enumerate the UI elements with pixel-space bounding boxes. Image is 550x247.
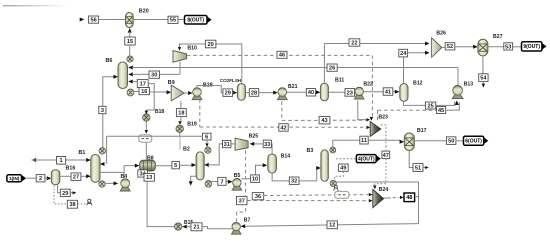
stream box 38 [67,200,77,208]
svg-text:B25: B25 [249,133,259,139]
drum B16 [51,170,60,185]
feed stream box 1(IN) [7,175,26,182]
wire B22 to 41 [363,91,383,93]
wire B3 condenser up to 11 [333,140,360,147]
stream box 22 [349,39,360,47]
stream box 41 [383,88,393,96]
stream box 21 [191,223,202,231]
arrow hang down [189,181,193,186]
svg-text:B21: B21 [288,84,298,90]
svg-text:54: 54 [480,76,487,82]
wire 29 stub [70,192,73,194]
arrow into B27 [473,45,478,49]
pump B22 [354,87,364,99]
stream box 5 [172,161,180,169]
work stream B28 dashed down [199,99,201,127]
svg-text:6: 6 [205,135,208,141]
condenser of B6 [127,56,133,62]
work stream upper dashed to B24 [264,194,369,197]
svg-text:B18: B18 [155,109,164,115]
wire B22 base elbow to B23 [358,100,367,119]
arrow into CO2FLSH [233,91,238,95]
wire stream 1 [32,159,91,161]
heat stream dotted from 38 [78,203,86,205]
svg-text:36: 36 [255,194,261,200]
svg-text:10: 10 [252,177,258,183]
wire 1(IN) to box 2 [26,177,36,179]
wire 56 to B20 [99,19,126,21]
svg-text:15: 15 [127,39,133,45]
wire B12 top to 24 [403,57,405,84]
pump B13 [452,86,463,99]
wire 41 to B12 [393,91,396,93]
stream box 51 [413,164,423,172]
wire B1 reboiler to pump B4 [105,182,114,184]
svg-text:29: 29 [62,191,68,197]
stream box 34 [138,170,148,178]
svg-text:16: 16 [141,89,147,95]
column B6 [118,62,128,89]
stream box 29 [223,89,233,97]
pump B21 [277,88,287,100]
wire 24 to B26 [408,52,426,54]
svg-text:48: 48 [406,195,412,201]
svg-text:23: 23 [347,90,353,96]
svg-text:28: 28 [251,90,257,96]
stream box 43 [319,117,330,125]
arrow into hidden block top [145,130,148,134]
hidden work block (dashed pill) [335,191,349,198]
wire B20 to 55 [133,19,168,21]
wire B2 reboiler to 7 [212,181,218,183]
work stream 46 from B10 dashed [187,54,373,56]
svg-text:B22: B22 [363,82,373,88]
arrow up into B20 bottom [128,28,132,33]
work stream B24 outlet [384,197,391,199]
svg-text:3: 3 [101,108,104,114]
svg-text:41: 41 [385,89,391,95]
arrow into valve B19 [178,121,181,125]
arrow into B25 right [250,142,255,146]
wire B8 to box 5 [155,165,172,167]
work stream 46 dashed vertical [371,55,373,116]
svg-text:37: 37 [239,198,245,204]
svg-text:21: 21 [193,225,199,231]
wire stream 20 [180,44,242,83]
mixer B24 [373,190,384,208]
svg-text:25: 25 [427,103,433,109]
wire 17 elbow right [146,84,154,113]
svg-text:B24: B24 [379,187,389,193]
arrow into valve B18 top [145,111,148,115]
wire B25 to 31 [231,143,235,145]
arrow into 48 [400,196,404,199]
wire B26 to 52 [442,46,445,48]
wire stream 30 horizontal [132,73,180,75]
stream box 40 [306,89,315,97]
wire B18 to hidden block [145,121,147,129]
svg-text:32: 32 [291,179,297,185]
arrow into B6 from stream 30 [128,72,133,76]
stream box 24 [399,49,408,57]
svg-text:B23: B23 [378,114,388,120]
wire 32 onward [299,180,317,182]
stream box 16 [139,88,150,96]
stream box 27 [71,173,81,181]
column B3 [321,150,328,181]
wire B17 bottoms to 51 [409,151,413,168]
reboiler of B3 [330,180,336,186]
mixer B26 [432,38,442,57]
wire B9 to B28 [184,92,189,94]
arrow into B8 left [135,164,140,168]
wire B16 to 27 [60,175,71,177]
wire pump B4 up to B8 [124,166,135,179]
wire B16 bottoms elbow to box 29 [58,185,61,193]
svg-text:B26: B26 [436,31,446,37]
mixer B9 [171,85,184,101]
svg-text:B19: B19 [187,122,197,128]
svg-text:1(IN): 1(IN) [9,176,20,181]
wire 50 to 6(OUT) [456,140,464,142]
wire B11 to 23 [328,91,345,93]
svg-text:29: 29 [225,91,231,97]
svg-text:B1: B1 [79,150,86,156]
column B1 [91,155,100,183]
stream box 15 [125,37,136,45]
work stream 43 dashed [282,119,366,121]
stream box 48 bold [404,193,415,202]
svg-text:38: 38 [69,202,75,208]
arrow B9 outlet to B28 [188,91,193,95]
stream box 28 [249,89,258,97]
wire B21 to 40 [287,91,307,93]
arrow into B6 from line 26 [128,66,133,70]
svg-text:53: 53 [505,44,511,50]
valve B19 [176,125,183,132]
heat exchanger B8 [140,160,156,171]
flash drum CO2FLSH [237,84,245,101]
wire B28 outlet elbow to 29 [197,86,223,93]
wire 53 to 9(OUT) [513,46,522,48]
svg-text:50: 50 [448,139,454,145]
heat stream dotted to box 38 [54,186,67,204]
wire 32 elbow into B3 [316,168,319,181]
drum B14 [268,154,277,173]
wire 40 to B11 [316,91,317,93]
stream box 3 [99,106,106,114]
arrow into pump B4 [114,181,119,185]
svg-text:4(OUT): 4(OUT) [358,156,375,162]
arrow 22 into B26 [425,42,430,46]
svg-text:1: 1 [60,158,63,164]
work stream lower dashed to B24 [247,200,368,202]
arrow work 46 into B23 top [370,117,373,121]
svg-text:B11: B11 [335,78,344,84]
reboiler of B6 [127,89,134,96]
stream box 2 [36,175,45,183]
wire CO2FLSH to 28 [245,92,249,94]
svg-text:56: 56 [90,18,96,24]
wire 18 to valve B19 [180,117,182,122]
svg-text:13: 13 [146,175,152,181]
wire B12 bottoms to 25 [404,101,455,105]
arrow into B3 [316,166,321,170]
arrow into B11 [316,90,321,94]
work stream 42 dashed [200,126,366,128]
wire 27 to B1 [81,175,87,177]
arrow into pump B5 [228,180,233,184]
wire box 6 to condenser [206,140,208,144]
arrow into B24 top [373,186,376,190]
stream box 32 [289,177,299,185]
valve B15 [175,223,182,230]
stream box 55 [168,16,178,24]
stream box 52 [445,43,455,51]
pump B7 [231,222,241,234]
wire 13 down to bottom recycle line [147,181,174,226]
arrow into B2 condenser from 6 [205,143,208,147]
wire stream 6 horizontal [107,135,203,137]
svg-text:43: 43 [321,118,327,124]
svg-text:9(OUT): 9(OUT) [523,44,540,50]
arrow into B17 [400,140,405,144]
svg-text:11: 11 [361,138,367,144]
arrow 27 into B1 [86,174,91,178]
wire stream 30 riser from B10 [179,62,181,75]
svg-text:47: 47 [383,153,389,159]
stream box 56 [89,16,99,24]
column B2 [196,152,204,180]
wire stream 3 from B1 condenser to B6 [103,77,115,148]
wire 21 to pump B7 [202,227,232,229]
arrow into B1 right side from stream 6 [100,162,105,166]
wire B5 to 10 [241,178,250,180]
arrow stream 1 into B1 [86,158,91,162]
svg-text:B7: B7 [244,217,251,223]
svg-text:B27: B27 [493,34,503,40]
svg-text:45: 45 [438,108,444,114]
wire 11 to B17 [368,139,400,141]
stream box 53 [504,43,513,51]
svg-text:5: 5 [174,163,177,169]
svg-text:B9: B9 [168,80,175,86]
wire B14 top to 33 [270,144,273,154]
wire stream 22 [324,44,425,84]
arrow into B2 right side [204,163,209,167]
svg-text:B20: B20 [139,9,149,15]
product stream box 6(OUT) [464,136,489,145]
svg-text:30: 30 [151,73,157,79]
svg-text:B3: B3 [307,148,314,154]
wire box2 to B16 [45,177,48,179]
wire B19 tail below 6 line [179,136,181,149]
arrow into B6 from stream 17 [128,80,133,84]
heat stream 47 upper stub [385,146,387,151]
flash drum B17 [404,133,414,151]
stream box 1 [57,157,66,165]
svg-text:40: 40 [308,90,314,96]
arrow into B14 [263,163,268,167]
svg-text:B14: B14 [281,154,291,160]
svg-text:B6: B6 [106,58,113,64]
drum B11 [320,83,328,101]
wire B9 bottom to 18 [180,101,182,109]
svg-text:17: 17 [140,82,146,88]
stream box 7 [218,177,226,185]
svg-text:24: 24 [400,51,407,57]
flash drum B20 [126,13,134,28]
svg-text:CO2FLSH: CO2FLSH [220,78,242,83]
stream box 23 [345,89,355,97]
wire B2 left lower hang [191,176,196,182]
wire bottom long line from riser to B7 [245,224,419,227]
mixer B23 [370,122,381,137]
arrow work 42 into B23 [366,126,370,129]
flash drum B27 [478,39,488,56]
arrow end of 51 [425,166,429,169]
wire stream 26 long line [132,67,458,69]
arrow into B16 [47,176,52,180]
heat stream dotted 49 to reboiler [335,171,344,180]
stream box 33 [263,140,271,148]
wire box 15 down to B6 condenser [129,45,131,57]
wire 28 to B21 [259,92,274,94]
wire 31 elbow into B2 [208,144,222,165]
wire B27 bottoms to 54 [482,56,484,74]
svg-text:B16: B16 [66,165,76,171]
stream box 20 [205,40,216,48]
stream box 11 [360,136,368,144]
wire 33 to B25 [254,143,263,145]
arrow into mixer B9 [167,90,172,94]
wire B20 bottom to box 15 [129,32,131,38]
condenser of B2 [205,147,211,153]
condenser of B3 [330,147,336,153]
wire 51 stub [423,167,426,169]
work glyph above pill [333,185,338,191]
svg-text:49: 49 [340,166,346,172]
svg-text:6(OUT): 6(OUT) [465,139,482,145]
wire B3 bottoms horizontal [336,181,418,183]
wire 26 riser from B13 [457,68,459,86]
compressor B25 [235,138,248,150]
arrow stream 5 into B2 [192,163,197,167]
svg-text:B17: B17 [417,128,427,134]
stream box 30 [149,71,160,79]
condenser of B1 [99,148,105,154]
wire 55 to 8(OUT) [178,19,185,21]
compressor B10 [173,51,187,63]
work stream 45 dashed [378,109,437,111]
stream box 13 [144,173,154,181]
svg-text:B12: B12 [413,81,423,87]
wire 7 to B5 [226,181,229,183]
stream box 10 [251,175,260,183]
work stream B21 dashed down [281,101,283,120]
product stream box 9(OUT) [522,42,547,51]
work stream dashes to 48 [393,197,400,199]
heat stream 47 down to B24 [375,159,386,185]
arrow end of 54 down [482,84,485,88]
wire 29 to CO2FLSH [232,92,235,94]
wire B1 side draw to B8 feed riser [100,171,124,173]
svg-text:33: 33 [264,142,270,148]
arrow into B6 left [113,75,118,79]
stream box 42 [279,124,288,132]
svg-text:12: 12 [329,223,335,229]
heat stream dotted to 4(OUT) [336,158,356,160]
svg-text:26: 26 [329,66,335,72]
stream box 54 [479,74,488,82]
svg-text:8(OUT): 8(OUT) [187,18,204,24]
arrow work into B24 upper [369,193,373,196]
svg-text:18: 18 [178,111,184,117]
stream box 25 [425,102,435,109]
wire 45 to B13 [446,102,460,110]
svg-text:2: 2 [39,176,42,182]
pump B28 [192,88,202,100]
stream box 31 [223,141,231,149]
work stream B25 dashed down [237,150,246,221]
wire B23 outlet elbow [381,125,386,146]
stream box 17 [137,80,148,88]
svg-text:B5: B5 [234,173,241,179]
product stream box 4(OUT) [356,155,380,163]
svg-text:20: 20 [208,42,214,48]
arrow up into pump B13 [455,100,459,105]
svg-text:27: 27 [73,175,79,181]
product stream box 8(OUT) [185,16,212,25]
stream box 6 [202,133,211,140]
svg-text:55: 55 [170,18,176,24]
drum B12 [400,84,408,102]
arrow work 43 into B23 [366,118,370,121]
arrow into valve B15 [182,225,187,229]
heat stream end glyph [87,199,92,205]
wire 10 elbow to B14 [256,165,264,175]
wire 17 to B6 [132,81,137,83]
wire B14 bottoms to 32 [272,173,289,181]
arrow into B10 top [178,47,181,51]
wire B15 to 21 [186,226,191,228]
arrow into pump B7 right [241,224,246,228]
svg-text:46: 46 [279,53,285,59]
wire B6 reboiler to 16 [134,91,139,93]
work stream 45 corner into B23 [377,110,379,121]
arrow into B12 [395,90,400,94]
svg-text:B2: B2 [183,147,190,153]
wire B27 to 53 [488,46,504,48]
reboiler of B2 [205,181,212,188]
arrow work into B24 lower [369,199,373,202]
svg-text:51: 51 [415,165,421,171]
wire 5 to B2 [179,164,192,166]
svg-text:B8: B8 [147,155,154,161]
wire 52 to B27 [455,46,474,48]
stream box 26 [327,64,337,72]
stream box 45 [437,107,446,114]
hidden block (dashed drum) [139,135,152,142]
stream box 29 lower [60,189,70,197]
wire B17 to 50 [414,140,446,142]
stream box 46 [277,51,287,58]
wire riser from B3 bottoms [418,182,420,224]
svg-text:B13: B13 [464,81,474,87]
wire 48 hook to riser [415,192,419,197]
wire hidden block to B8 top [145,142,147,161]
arrow into stream 56 line [80,18,85,22]
